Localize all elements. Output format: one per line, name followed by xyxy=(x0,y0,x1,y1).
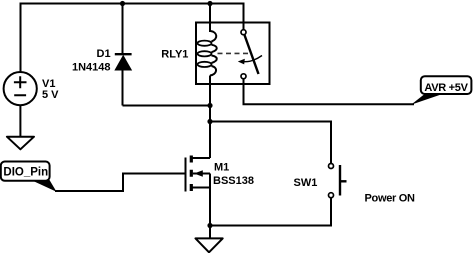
svg-text:D1: D1 xyxy=(97,48,111,60)
wire D1 anode to coil bottom node xyxy=(123,105,211,107)
voltage source V1 xyxy=(4,72,60,105)
net label AVR +5V xyxy=(411,76,471,105)
svg-text:5 V: 5 V xyxy=(42,89,59,101)
svg-text:AVR +5V: AVR +5V xyxy=(424,82,468,94)
svg-text:Power ON: Power ON xyxy=(365,193,416,205)
wire drain node to SW1 top xyxy=(210,122,331,164)
ground (bottom) xyxy=(196,238,223,252)
wire DIO_Pin to gate xyxy=(55,174,185,192)
node junction D1 / coil column xyxy=(207,103,212,108)
node junction top rail / D1 xyxy=(120,1,125,6)
switch SW1 xyxy=(294,164,347,198)
node junction top rail / coil xyxy=(207,1,212,6)
wire coil column down to MOSFET drain xyxy=(209,84,211,158)
wire SW1 bottom to ground node xyxy=(210,198,331,226)
svg-text:M1: M1 xyxy=(214,161,229,173)
relay actuation dashed link xyxy=(218,52,249,54)
wire MOSFET source/body to ground xyxy=(209,174,211,239)
wire relay switch NO contact to AVR +5V xyxy=(244,80,415,105)
svg-text:RLY1: RLY1 xyxy=(161,48,188,60)
wire V1 to ground xyxy=(19,105,21,137)
svg-text:BSS138: BSS138 xyxy=(213,175,254,187)
ground (under V1) xyxy=(7,137,34,150)
svg-text:1N4148: 1N4148 xyxy=(72,62,111,74)
net label DIO_Pin xyxy=(1,162,57,192)
relay actuation arrow xyxy=(244,56,263,62)
relay switch contacts xyxy=(238,30,262,79)
relay RLY1 box xyxy=(196,23,270,85)
wire top rail xyxy=(21,4,244,73)
svg-text:DIO_Pin: DIO_Pin xyxy=(3,167,48,179)
svg-text:SW1: SW1 xyxy=(294,177,318,189)
transistor M1 xyxy=(186,156,254,192)
node junction source / SW1 bottom xyxy=(207,223,212,228)
node junction coil column / SW1 branch xyxy=(207,119,212,124)
diode D1 xyxy=(72,4,132,106)
relay switch blade xyxy=(245,35,259,74)
relay coil xyxy=(198,4,217,85)
